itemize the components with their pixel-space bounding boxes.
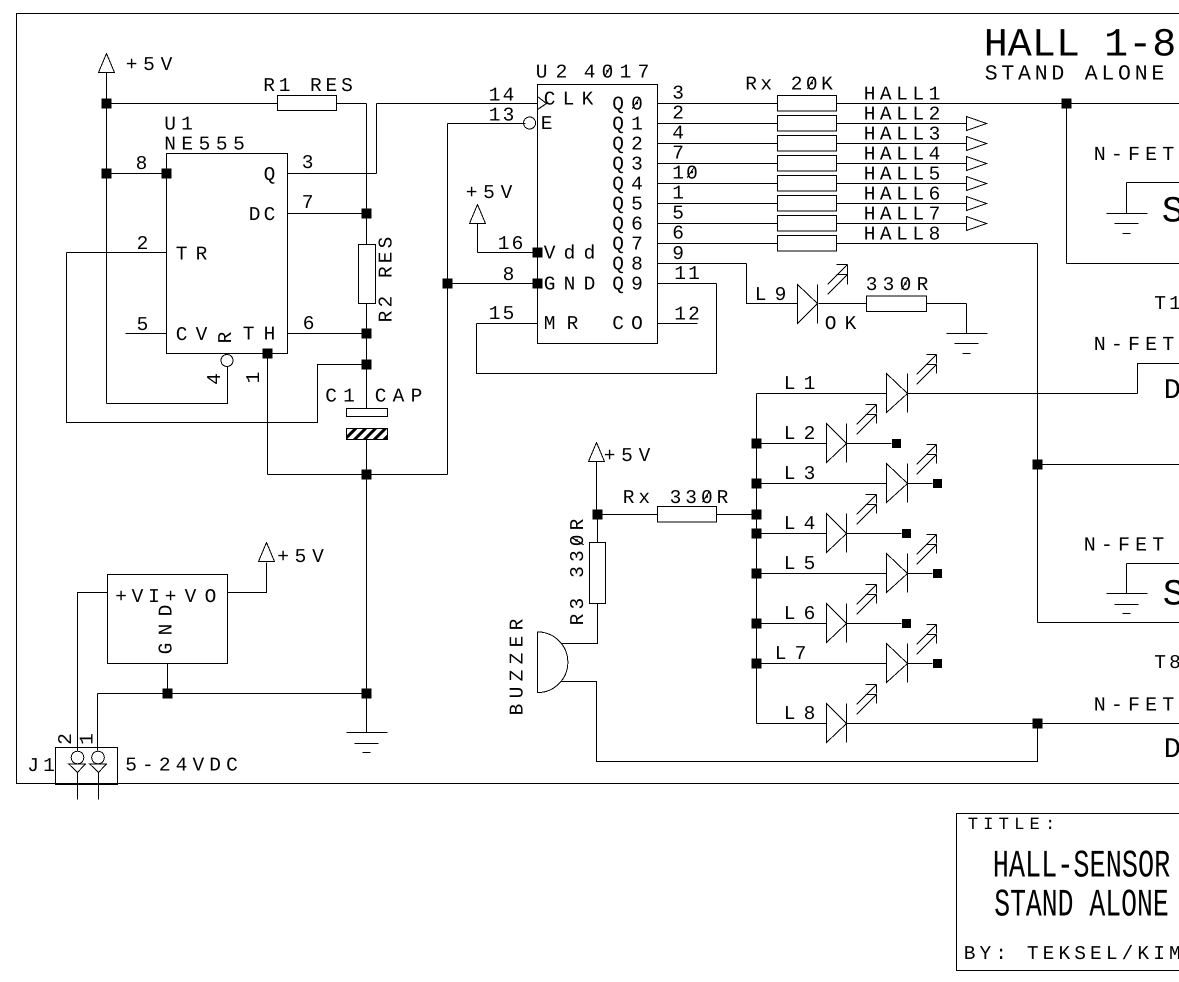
wire L1 to T1 gate: [907, 393, 1138, 395]
svg-text:HALL5: HALL5: [864, 164, 941, 186]
pin 6 Q7 wire: [658, 243, 778, 245]
resistor Rx 330R: [658, 506, 717, 522]
resistor Rx8 20K: [778, 235, 837, 251]
ground: [347, 732, 388, 734]
terminal L2: [892, 439, 901, 448]
svg-text:330R: 330R: [866, 274, 929, 296]
svg-text:+5V: +5V: [277, 546, 324, 568]
terminal L6: [902, 619, 911, 628]
svg-text:C1: C1: [325, 386, 355, 408]
slashed zero marks: [605, 66, 612, 77]
node pin1 gnd junction: [362, 470, 372, 480]
svg-text:GND: GND: [156, 605, 178, 655]
terminal L4: [902, 529, 911, 538]
svg-text:11: 11: [674, 263, 700, 285]
svg-text:T1: T1: [1154, 293, 1179, 315]
svg-text:6: 6: [303, 313, 315, 335]
svg-text:Vdd: Vdd: [544, 243, 596, 265]
J1 pin 1 circle: [92, 751, 105, 764]
connector J1 box: [56, 748, 118, 785]
LED L7: [752, 659, 762, 669]
resistor Rx5 20K: [778, 175, 837, 191]
svg-text:TITLE:: TITLE:: [968, 816, 1056, 835]
net HALL6 wire: [837, 203, 967, 205]
svg-text:CAP: CAP: [375, 386, 423, 408]
wire Rx 330R to bus: [717, 514, 757, 516]
wire Q8 to L9: [747, 264, 798, 304]
svg-text:Rx 330R: Rx 330R: [623, 487, 729, 509]
svg-text:Q: Q: [264, 164, 276, 186]
svg-text:U1: U1: [164, 114, 193, 136]
wire R2 to C1: [366, 304, 368, 409]
ground: [947, 333, 988, 335]
svg-text:R1 RES: R1 RES: [263, 75, 353, 97]
svg-text:5: 5: [137, 314, 149, 336]
pin 15 MR wire loop: [477, 323, 538, 325]
svg-text:J1: J1: [27, 755, 55, 777]
svg-text:1: 1: [243, 372, 265, 384]
svg-text:Q4: Q4: [612, 174, 643, 196]
svg-text:HALL1: HALL1: [864, 84, 941, 106]
pin 7 DC wire: [288, 213, 367, 215]
LED anode bus wire: [756, 394, 758, 724]
capacitor C1 CAP: [347, 409, 388, 417]
buffer triangle HALL row y=123: [967, 117, 987, 131]
svg-text:Q3: Q3: [612, 154, 643, 176]
resistor R2 RES: [359, 245, 376, 304]
pin 10 Q4 wire: [658, 183, 778, 185]
svg-text:7: 7: [302, 192, 314, 214]
net HALL5 wire: [837, 183, 967, 185]
terminal L3: [933, 479, 942, 488]
svg-text:L5: L5: [784, 553, 816, 575]
pin 11 Q9 wire: [658, 283, 717, 285]
svg-text:MR: MR: [544, 313, 579, 335]
pin 2 TR wire: [67, 252, 167, 254]
op-amp U1 NE555 body: [167, 154, 288, 354]
svg-text:Q6: Q6: [612, 214, 643, 236]
LED L6: [752, 619, 762, 629]
svg-text:9: 9: [672, 243, 684, 265]
net HALL7 wire: [837, 223, 967, 225]
svg-text:CO: CO: [612, 313, 643, 335]
pin 4 reset bubble: [221, 355, 233, 367]
svg-text:Q8: Q8: [612, 254, 643, 276]
svg-text:DC: DC: [249, 204, 276, 226]
buzzer BUZZER: [538, 632, 568, 693]
svg-text:15: 15: [489, 303, 515, 325]
wire L9 to R: [819, 303, 867, 305]
svg-text:T8: T8: [1154, 652, 1179, 674]
svg-text:L4: L4: [784, 513, 816, 535]
node +5V rail junction: [102, 99, 112, 109]
node L8 junction: [1033, 719, 1043, 729]
terminal L5: [933, 569, 942, 578]
pin 9 Q8 wire: [658, 263, 747, 265]
svg-text:E: E: [541, 113, 553, 135]
svg-text:N-FET: N-FET: [1094, 144, 1175, 167]
net HALL3 wire: [837, 143, 967, 145]
svg-text:7: 7: [672, 143, 684, 165]
svg-text:HALL4: HALL4: [864, 144, 941, 166]
wire L7 cathode: [908, 663, 933, 665]
pin 5 Q6 wire: [658, 223, 778, 225]
title block box: [957, 814, 1179, 971]
wire +VI to J1 pin2: [78, 593, 108, 752]
svg-text:L1: L1: [784, 373, 816, 395]
border frame: [17, 14, 1179, 784]
pin 1 GND wire: [263, 349, 273, 359]
svg-text:U2: U2: [536, 62, 568, 84]
svg-text:4017: 4017: [584, 62, 650, 84]
svg-text:12: 12: [674, 304, 700, 326]
svg-text:CLK: CLK: [544, 89, 594, 111]
wire +5V rail down to reset: [106, 104, 108, 404]
wire L3 cathode: [908, 483, 933, 485]
svg-text:HALL7: HALL7: [864, 204, 941, 226]
svg-text:5: 5: [672, 203, 684, 225]
wire R3 to buzzer: [561, 604, 598, 644]
wire L6 cathode: [847, 623, 902, 625]
buffer triangle HALL row y=163: [967, 157, 987, 171]
LED L3: [752, 479, 762, 489]
svg-text:4: 4: [672, 123, 684, 145]
svg-text:Q2: Q2: [612, 134, 643, 156]
node U2 gnd junction: [443, 279, 453, 289]
svg-text:8: 8: [136, 153, 148, 175]
svg-text:N-FET: N-FET: [1094, 695, 1175, 718]
wire reset pin4 path: [107, 367, 228, 404]
svg-text:NE555: NE555: [164, 134, 245, 156]
wire pin1 to gnd node: [268, 474, 367, 476]
wire U2 gnd to rail: [367, 474, 448, 476]
svg-text:L8: L8: [784, 703, 816, 725]
resistor Rx3 20K: [778, 135, 837, 151]
svg-text:1: 1: [77, 733, 99, 745]
svg-text:2: 2: [137, 233, 149, 255]
pin 16 Vdd: [533, 248, 543, 258]
terminal L7: [933, 659, 942, 668]
svg-text:Q1: Q1: [612, 114, 643, 136]
wire L2 cathode: [847, 443, 892, 445]
svg-text:STAND ALONE: STAND ALONE: [985, 63, 1165, 87]
regulator U3 box: [108, 575, 228, 664]
svg-text:3: 3: [672, 83, 684, 105]
svg-text:L3: L3: [784, 463, 816, 485]
svg-text:2: 2: [672, 103, 684, 125]
node bus feed junction: [752, 510, 762, 520]
node pin8 junction: [102, 169, 112, 179]
net HALL1 wire: [837, 103, 1179, 105]
wire +VO to +5V: [228, 563, 267, 593]
resistor R3 330R: [597, 515, 599, 543]
node DC pin7 junction: [362, 209, 372, 219]
power symbol +5V (555 supply): [99, 54, 115, 73]
svg-text:+5V: +5V: [466, 182, 513, 204]
pin 3 Q output wire: [288, 173, 377, 175]
resistor Rx4 20K: [778, 155, 837, 171]
svg-text:8: 8: [503, 264, 515, 286]
power symbol +5V (U2 supply): [470, 205, 486, 224]
resistor R1 RES: [278, 96, 337, 111]
svg-text:TR: TR: [176, 244, 208, 266]
svg-text:+5V: +5V: [126, 54, 173, 76]
svg-text:S: S: [1163, 575, 1179, 617]
svg-text:R3 330R: R3 330R: [567, 518, 589, 625]
counter U2 4017 body: [538, 85, 658, 344]
pin 4 Q2 wire: [658, 143, 778, 145]
wire +5V rail to R1: [107, 103, 278, 105]
svg-text:3: 3: [302, 152, 314, 174]
svg-text:Q9: Q9: [612, 274, 643, 296]
svg-text:+5V: +5V: [604, 445, 651, 467]
resistor Rx2 20K: [778, 115, 837, 131]
svg-text:L7: L7: [775, 643, 807, 665]
buffer triangle HALL row y=203: [967, 197, 987, 211]
svg-text:OK: OK: [825, 313, 857, 335]
node regulator gnd junction: [163, 689, 173, 699]
svg-text:HALL2: HALL2: [864, 104, 941, 126]
pin 8 GND: [448, 283, 538, 285]
svg-text:Q7: Q7: [612, 234, 643, 256]
svg-text:BUZZER: BUZZER: [507, 618, 529, 715]
wire E enable down: [448, 123, 526, 125]
svg-text:STAND ALONE: STAND ALONE: [994, 884, 1169, 928]
wire +5V to rail: [106, 73, 108, 104]
pin 7 Q3 wire: [658, 163, 778, 165]
ground rail wire: [98, 693, 367, 695]
svg-text:6: 6: [672, 223, 684, 245]
pin 13 E bubble: [524, 117, 536, 129]
net HALL2 wire: [837, 123, 967, 125]
svg-text:N-FET: N-FET: [1094, 334, 1175, 357]
svg-text:+VI: +VI: [115, 586, 160, 608]
svg-text:R2 RES: R2 RES: [376, 237, 398, 323]
svg-text:Q0: Q0: [612, 94, 643, 116]
net HALL8 wire down: [837, 243, 1038, 245]
LED L8: [757, 723, 827, 725]
svg-text:HALL6: HALL6: [864, 184, 941, 206]
svg-text:4: 4: [204, 373, 226, 385]
LED L1: [757, 393, 887, 395]
svg-text:GND: GND: [544, 274, 596, 296]
LED L9: [798, 285, 818, 324]
svg-text:5-24VDC: 5-24VDC: [125, 755, 238, 777]
pin 6 TH wire: [288, 333, 367, 335]
svg-text:S: S: [1162, 192, 1179, 234]
wire gnd rail to J1 pin1: [97, 694, 99, 751]
power symbol +5V (LED supply): [589, 443, 605, 462]
wire L8 to T8 gate: [847, 723, 1179, 725]
wire L4 cathode: [847, 533, 902, 535]
svg-text:D: D: [1164, 733, 1179, 766]
LED L2: [752, 439, 762, 449]
svg-text:10: 10: [672, 163, 698, 185]
svg-text:L6: L6: [784, 603, 816, 625]
svg-text:L9: L9: [755, 284, 787, 306]
pin 2 Q1 wire: [658, 123, 778, 125]
pin 1 Q5 wire: [658, 203, 778, 205]
resistor Rx1 20K: [778, 95, 837, 111]
svg-text:2: 2: [55, 733, 77, 745]
wire L5 cathode: [908, 573, 933, 575]
ground inside mid block: [1127, 563, 1179, 565]
svg-text:Q5: Q5: [612, 194, 643, 216]
power symbol +5V (regulator out): [259, 543, 275, 562]
pin 3 Q0 wire: [658, 103, 778, 105]
net HALL4 wire: [837, 163, 967, 165]
buffer triangle HALL row y=143: [967, 137, 987, 151]
svg-text:BY: TEKSEL/KIMMO: BY: TEKSEL/KIMMO: [964, 943, 1179, 965]
pin 5 CV stub: [126, 333, 167, 335]
pin 8 wire: [107, 173, 167, 175]
svg-text:L2: L2: [784, 423, 816, 445]
svg-text:Rx 20K: Rx 20K: [745, 74, 833, 96]
net HALL8 wire: [837, 243, 967, 245]
svg-text:D: D: [1164, 374, 1179, 407]
buffer triangle HALL row y=223: [967, 217, 987, 231]
block N-FET mid box: [1033, 460, 1043, 470]
svg-text:R: R: [215, 331, 237, 343]
svg-text:TH: TH: [243, 324, 276, 346]
wire C1 to ground rail: [366, 440, 368, 733]
svg-text:CV: CV: [176, 324, 208, 346]
resistor 330R: [867, 296, 927, 312]
pin 12 CO stub: [658, 323, 698, 325]
svg-text:N-FET: N-FET: [1084, 535, 1165, 558]
svg-text:HALL8: HALL8: [864, 224, 941, 246]
ground inside T1 block: [1127, 182, 1179, 184]
svg-text:16: 16: [498, 233, 524, 255]
node HALL1 junction: [1062, 99, 1072, 109]
wire to Rx 330R: [598, 514, 658, 516]
pin 14 CLK wire: [538, 97, 547, 110]
wire buzzer to L8 net: [562, 681, 1038, 761]
node Rx330R junction: [593, 510, 603, 520]
resistor Rx6 20K: [778, 195, 837, 211]
buffer triangle HALL row y=183: [967, 177, 987, 191]
svg-text:HALL3: HALL3: [864, 124, 941, 146]
LED L4: [752, 529, 762, 539]
block N-FET T1 box: [1066, 104, 1068, 264]
J1 pin 2 circle: [71, 751, 84, 764]
resistor Rx7 20K: [778, 215, 837, 231]
wire R1 to DC node: [337, 103, 367, 105]
node gnd rail junction: [362, 689, 372, 699]
wire 330R to ground: [927, 303, 967, 305]
LED L5: [752, 569, 762, 579]
node TH junction: [362, 329, 372, 339]
svg-text:HALL-SENSOR: HALL-SENSOR: [993, 845, 1171, 889]
node TR junction: [362, 360, 372, 370]
svg-text:1: 1: [672, 183, 684, 205]
wire regulator GND: [167, 664, 169, 694]
